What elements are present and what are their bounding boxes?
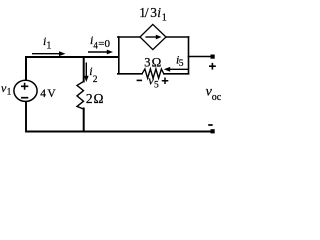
svg-text:3: 3 [150, 5, 157, 20]
svg-text:V: V [47, 88, 56, 100]
svg-text:5: 5 [154, 80, 159, 90]
svg-text:4: 4 [40, 88, 46, 100]
svg-text:1: 1 [46, 41, 51, 52]
svg-text:/: / [145, 5, 149, 20]
svg-text:=0: =0 [98, 38, 110, 50]
svg-text:2: 2 [86, 91, 93, 106]
svg-text:Ω: Ω [152, 55, 162, 70]
svg-text:1: 1 [162, 13, 167, 24]
svg-text:3: 3 [144, 56, 150, 70]
svg-text:i: i [157, 5, 161, 20]
svg-text:1: 1 [7, 87, 12, 97]
svg-text:oc: oc [212, 92, 222, 103]
svg-text:Ω: Ω [94, 91, 104, 106]
svg-text:2: 2 [93, 75, 98, 85]
svg-text:5: 5 [179, 59, 184, 69]
